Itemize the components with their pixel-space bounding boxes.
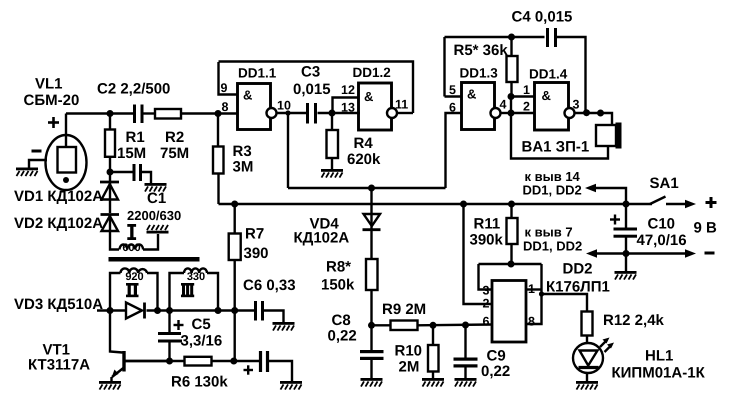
wire: VD3 output rail xyxy=(97,309,126,311)
wire: VD4 to R8 xyxy=(370,230,372,259)
battery plus sign xyxy=(706,197,717,208)
capacitor C5 electrolytic xyxy=(158,320,184,341)
svg-text:HL1: HL1 xyxy=(645,348,673,365)
ground HL1 xyxy=(576,381,598,390)
svg-text:R10: R10 xyxy=(395,343,423,360)
wire: multivibrator output rail y188 xyxy=(288,187,446,189)
svg-text:15M: 15M xyxy=(117,145,146,162)
wire: C4 top rail xyxy=(445,36,545,38)
ground C9 xyxy=(455,378,477,387)
capacitor C1 xyxy=(134,164,141,181)
wire: VT1 base from winding II xyxy=(110,311,123,353)
svg-text:VD1 КД102А: VD1 КД102А xyxy=(14,188,103,205)
wire: winding I right end to ground xyxy=(143,234,158,250)
junction C3 out / pin13 xyxy=(329,110,336,117)
svg-text:КТ3117А: КТ3117А xyxy=(28,357,90,374)
ground C8 xyxy=(361,378,383,387)
junction winding II base node xyxy=(107,307,114,314)
svg-text:8: 8 xyxy=(222,100,229,114)
wire: R3 lower lead to +bus xyxy=(217,174,219,205)
svg-text:R6 130k: R6 130k xyxy=(171,374,228,391)
wire: top rail VL1 to DD1.1 pin 8 xyxy=(66,112,133,114)
wire: R7 top lead from +bus xyxy=(233,204,235,234)
junction R10 top xyxy=(430,322,437,329)
transformer winding II xyxy=(121,268,148,273)
svg-text:C1: C1 xyxy=(147,190,166,207)
svg-text:C9: C9 xyxy=(487,348,506,365)
capacitor C8 xyxy=(360,350,384,360)
wire: R3 upper lead xyxy=(217,114,219,147)
svg-text:3: 3 xyxy=(483,284,490,298)
wire: C5 bottom lead xyxy=(168,343,170,362)
junction R11 top on +bus xyxy=(508,201,515,208)
resistor R1 xyxy=(105,130,115,157)
svg-text:620k: 620k xyxy=(347,151,381,168)
junction C1 node xyxy=(107,169,114,176)
wire: R7 bottom lead xyxy=(233,260,235,311)
svg-text:C4 0,015: C4 0,015 xyxy=(512,9,573,26)
wire: VT1 collector / R6 rail xyxy=(125,360,185,362)
resistor R10 xyxy=(428,345,439,372)
diode VD4 xyxy=(363,214,381,230)
wire: DD2 pin2 from +bus xyxy=(464,204,493,304)
junction winding III right on VD3 rail xyxy=(215,307,222,314)
wire: rail y188 up to DD1.3 pin6 xyxy=(446,113,462,188)
wire: C8 bottom to ground xyxy=(370,360,372,378)
svg-text:DD2: DD2 xyxy=(563,261,593,278)
capacitor C10 electrolytic xyxy=(610,215,637,238)
diode VD3 xyxy=(126,303,145,319)
geiger tube VL1 xyxy=(32,117,87,190)
transformer core xyxy=(109,257,200,262)
wire: R4 bottom lead to ground xyxy=(331,158,333,169)
svg-text:&: & xyxy=(364,89,373,104)
coupling capacitor (electrolytic, R6 rail) xyxy=(244,351,268,375)
resistor R9 xyxy=(391,321,418,331)
svg-text:R2: R2 xyxy=(165,129,184,146)
transformer winding III xyxy=(184,268,207,273)
svg-text:3M: 3M xyxy=(233,159,254,176)
svg-text:DD1.4: DD1.4 xyxy=(529,67,568,82)
svg-text:1: 1 xyxy=(523,83,530,97)
wire: pin2 feed xyxy=(511,112,535,114)
transformer winding I xyxy=(120,245,144,250)
wire: C3 to DD1.2 pin13 xyxy=(318,112,361,114)
resistor R7 xyxy=(229,234,241,261)
resistor R6 xyxy=(185,357,212,366)
svg-text:390k: 390k xyxy=(470,232,504,249)
junction pin1 node xyxy=(508,93,515,100)
battery minus sign xyxy=(705,252,715,255)
junction R7 top on +bus xyxy=(231,201,238,208)
wire: coupling cap right to ground xyxy=(269,361,292,381)
wire: SA1 to battery plus xyxy=(666,203,688,205)
svg-text:0,015: 0,015 xyxy=(293,81,331,98)
svg-text:R3: R3 xyxy=(233,143,252,160)
svg-text:R1: R1 xyxy=(126,129,145,146)
svg-text:R12 2,4k: R12 2,4k xyxy=(603,312,665,329)
svg-text:9 В: 9 В xyxy=(694,220,718,237)
junction pin2/pin4 node xyxy=(508,110,515,117)
diode VD1 xyxy=(100,182,119,200)
wire: C10 bottom lead xyxy=(625,237,627,254)
svg-text:R9 2M: R9 2M xyxy=(382,301,426,318)
wire: DD2 pin1 lead xyxy=(526,288,542,290)
svg-text:R11: R11 xyxy=(474,216,501,233)
svg-text:DD1, DD2: DD1, DD2 xyxy=(523,183,582,198)
svg-text:КИПМ01А-1К: КИПМ01А-1К xyxy=(612,365,706,382)
wire: VD4 through to R8 xyxy=(370,213,372,230)
svg-text:1: 1 xyxy=(528,282,535,296)
junction R7 bottom on VD3 rail xyxy=(231,307,238,314)
svg-text:9: 9 xyxy=(221,81,228,95)
junction R12 tap xyxy=(539,291,544,296)
resistor R12 xyxy=(582,312,593,336)
wire: DD1.4 pin3 output xyxy=(575,113,613,125)
arrow battery plus xyxy=(685,200,696,208)
wire: R7 node down to R6 rail xyxy=(233,311,235,362)
wire: R11 top lead xyxy=(510,204,512,218)
svg-text:2200/630: 2200/630 xyxy=(127,208,181,223)
wire: C2 to R2 xyxy=(144,112,156,114)
switch SA1 xyxy=(650,197,666,205)
wire: C4 right to pin3 node xyxy=(557,37,586,113)
wire: winding II left leg xyxy=(110,273,121,311)
IC DD2 xyxy=(492,281,526,343)
svg-text:C6 0,33: C6 0,33 xyxy=(243,277,296,294)
svg-text:VD3 КД510А: VD3 КД510А xyxy=(14,296,103,313)
svg-text:К176ЛП1: К176ЛП1 xyxy=(546,279,610,296)
junction C5 bottom on R6 rail xyxy=(166,358,173,365)
svg-text:47,0/16: 47,0/16 xyxy=(637,232,687,249)
junction VD4 on y188 rail xyxy=(368,185,375,192)
wire: R12 feed from DD2 xyxy=(542,294,588,312)
ground R10 xyxy=(422,378,444,387)
logic gate DD1.1 xyxy=(238,84,277,130)
svg-text:6: 6 xyxy=(483,315,490,329)
ground C1 xyxy=(145,183,167,192)
ground R4 xyxy=(321,169,343,178)
ground VT1 emitter xyxy=(99,381,121,390)
wire: DD1.3 pin5 riser to C4 rail xyxy=(445,95,462,97)
capacitor C9 xyxy=(454,358,478,368)
svg-text:VL1: VL1 xyxy=(35,76,63,93)
svg-text:390: 390 xyxy=(244,245,269,262)
svg-text:3,3/16: 3,3/16 xyxy=(181,333,223,350)
svg-text:C2 2,2/500: C2 2,2/500 xyxy=(97,81,170,98)
svg-text:75M: 75M xyxy=(160,145,189,162)
svg-text:2: 2 xyxy=(523,100,530,114)
svg-text:DD1.1: DD1.1 xyxy=(238,66,277,81)
wire: C5 top lead xyxy=(168,311,170,333)
capacitor C2 xyxy=(135,105,143,124)
sounder BA1 xyxy=(596,123,622,149)
wire: C1 right plate to ground xyxy=(142,172,151,183)
wire: DD1.3 pin4 lead xyxy=(501,112,512,114)
junction winding III left / C5 xyxy=(166,307,173,314)
label winding III xyxy=(181,283,194,297)
svg-text:R4: R4 xyxy=(354,135,374,152)
wire: R1 bottom lead to C1 node xyxy=(109,157,111,181)
diode VD2 xyxy=(101,215,120,232)
wire: minus rail to battery minus xyxy=(594,252,689,254)
wire: R5 top lead xyxy=(510,37,512,56)
label winding I xyxy=(127,224,136,240)
resistor R4 xyxy=(327,130,339,158)
svg-text:4: 4 xyxy=(500,98,507,112)
wire: C10 top lead xyxy=(625,204,627,228)
transistor VT1 xyxy=(112,351,170,381)
wire: DD2 pin1-pin8 tie xyxy=(526,264,542,324)
wire: R9 left lead xyxy=(372,324,391,326)
wire: R9 right to DD2 pin6 xyxy=(418,323,493,326)
resistor R11 xyxy=(507,218,518,244)
svg-text:&: & xyxy=(243,88,252,103)
svg-text:13: 13 xyxy=(341,101,355,115)
wire: C6 right to ground xyxy=(264,311,284,323)
wire: speaker return to pin2 node xyxy=(511,113,608,159)
wire: R12 bottom to LED xyxy=(586,336,588,345)
wire: C8 top lead xyxy=(370,325,372,350)
resistor R8 xyxy=(366,259,378,290)
wire: R10 bottom to ground xyxy=(432,372,434,379)
svg-text:C3: C3 xyxy=(301,64,320,81)
wire: R1 top lead xyxy=(109,114,111,130)
resistor R5 xyxy=(507,56,518,82)
wire: top feedback rail DD1.1 pin9 to DD1.2 pin11 xyxy=(219,62,414,114)
svg-text:920: 920 xyxy=(125,271,143,283)
wire: pin 9 feedback vertical xyxy=(219,62,238,95)
wire: VD4 top lead from rail y188 xyxy=(370,188,372,213)
svg-text:DD1, DD2: DD1, DD2 xyxy=(523,239,582,254)
arrow to pin7 DD1,DD2 xyxy=(586,249,597,257)
logic gate DD1.4 xyxy=(535,83,575,131)
label winding II xyxy=(126,283,139,297)
svg-text:&: & xyxy=(467,87,476,102)
svg-text:600: 600 xyxy=(122,242,140,254)
svg-text:8: 8 xyxy=(528,315,535,329)
svg-text:2M: 2M xyxy=(399,359,420,376)
svg-text:BA1 ЗП-1: BA1 ЗП-1 xyxy=(522,139,590,156)
wire: DD1.2 pin 11 lead xyxy=(397,112,413,114)
ground winding I (inverted) xyxy=(147,225,169,234)
svg-text:к выв 7: к выв 7 xyxy=(525,225,573,240)
junction pin10 drop xyxy=(285,110,290,115)
wire: R5 bottom to pin1 node xyxy=(510,82,512,97)
logic gate DD1.3 xyxy=(462,83,501,130)
svg-text:R7: R7 xyxy=(245,226,264,243)
wire: DD1.1 pin10 to C3 xyxy=(277,112,307,114)
wire: VD3 cathode to R7 node xyxy=(147,309,235,311)
junction C9 top xyxy=(462,322,469,329)
wire: tube cathode to ground xyxy=(29,160,47,168)
wire: DD2 pin3 drop xyxy=(479,264,493,290)
svg-text:2: 2 xyxy=(483,297,490,311)
wire: C1 node to C1 left plate xyxy=(110,171,133,173)
wire: R4 top lead xyxy=(331,113,333,130)
wire: k vyv 14 feed xyxy=(593,188,626,204)
svg-text:C8: C8 xyxy=(332,312,351,329)
wire: R8 bottom lead xyxy=(370,290,372,325)
svg-text:КД102А: КД102А xyxy=(294,230,350,247)
svg-text:12: 12 xyxy=(341,83,355,97)
wire: C9 top lead xyxy=(464,325,466,358)
wire: DD2 pins 3 and 1 tie rail xyxy=(479,263,542,265)
arrow to pin14 DD1,DD2 xyxy=(585,184,596,192)
wire: VD1 to VD2 xyxy=(109,183,111,213)
svg-text:11: 11 xyxy=(395,98,408,112)
svg-text:СБМ-20: СБМ-20 xyxy=(24,92,80,109)
wire: tube anode to top rail xyxy=(65,114,67,148)
wire: R6 right lead xyxy=(212,360,260,362)
arrow battery minus xyxy=(685,249,696,257)
svg-text:330: 330 xyxy=(187,271,205,283)
wire: R11 bottom lead xyxy=(510,244,512,264)
svg-text:C5: C5 xyxy=(192,316,211,333)
wire: DD1.2 pin 12 riser xyxy=(333,98,359,114)
svg-text:DD1.2: DD1.2 xyxy=(353,65,391,80)
svg-text:&: & xyxy=(542,88,551,103)
wire: pin1 feed xyxy=(511,95,535,97)
wire: VD2 to winding I xyxy=(110,215,119,250)
wire: R2 to DD1.1 pin 8 xyxy=(181,112,238,114)
svg-text:DD1.3: DD1.3 xyxy=(460,66,499,81)
ground tube cathode xyxy=(16,168,38,177)
wire: pin10 output drop xyxy=(287,113,289,188)
wire: LED cathode to ground xyxy=(586,372,588,381)
wire: winding III left leg xyxy=(170,273,185,311)
wire: pin1 node to pin2 node xyxy=(510,97,512,114)
svg-text:10: 10 xyxy=(277,99,291,113)
ground C10 xyxy=(615,271,637,280)
resistor R2 xyxy=(155,109,181,119)
junction speaker feed xyxy=(597,110,604,117)
wire: R10 top lead xyxy=(432,325,434,345)
svg-text:5: 5 xyxy=(449,83,456,97)
junction R11 bottom xyxy=(508,261,515,268)
junction R3 / pin8 xyxy=(215,110,222,117)
ground coupling capacitor xyxy=(280,381,302,390)
junction R1 top xyxy=(107,110,114,117)
capacitor C3 xyxy=(308,103,316,124)
logic gate DD1.2 xyxy=(359,83,398,130)
svg-text:VD2 КД102А: VD2 КД102А xyxy=(14,215,103,232)
junction winding II right on VD3 rail xyxy=(154,307,161,314)
svg-text:C10: C10 xyxy=(648,216,676,233)
svg-text:R5* 36k: R5* 36k xyxy=(454,42,509,59)
wire: winding II right leg xyxy=(147,273,158,311)
LED HL1 xyxy=(573,338,614,374)
wire: C6 left lead xyxy=(235,309,254,311)
svg-text:R8*: R8* xyxy=(326,259,351,276)
ground C6 xyxy=(273,322,295,331)
svg-text:SA1: SA1 xyxy=(650,175,679,192)
resistor R3 xyxy=(213,147,224,174)
capacitor C4 xyxy=(548,28,556,47)
junction R5 top on C4 rail xyxy=(508,34,515,41)
junction C4 at pin3 xyxy=(583,109,590,116)
junction DD2 pin2 on +bus xyxy=(460,201,467,208)
wire: C10 ground stub xyxy=(625,254,627,272)
junction R8/C8/R9 xyxy=(368,322,375,329)
svg-text:0,22: 0,22 xyxy=(328,328,357,345)
wire: +9V bus xyxy=(219,203,653,205)
junction R6 rail / riser xyxy=(230,358,237,365)
svg-text:3: 3 xyxy=(573,98,580,112)
wire: winding III right leg xyxy=(207,273,218,311)
svg-text:150k: 150k xyxy=(321,277,355,294)
capacitor C6 xyxy=(256,301,263,321)
junction C10 on minus rail xyxy=(623,250,630,257)
wire: C9 bottom to ground xyxy=(464,368,466,379)
svg-text:6: 6 xyxy=(449,101,456,115)
junction C10 on +bus xyxy=(623,201,630,208)
svg-text:0,22: 0,22 xyxy=(481,363,510,380)
